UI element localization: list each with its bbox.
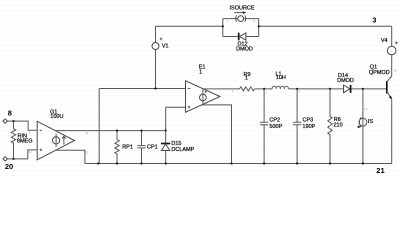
node junction node11 end [165, 130, 167, 132]
wire bottom rail (node 21) [85, 163, 392, 165]
svg-text:13: 13 [364, 107, 368, 111]
svg-text:DCLAMP: DCLAMP [171, 147, 194, 153]
svg-text:210: 210 [334, 123, 343, 129]
wire L1 to D14 [289, 88, 344, 90]
svg-text:21: 21 [376, 166, 384, 175]
svg-text:1uH: 1uH [276, 75, 286, 81]
wire V4 stem [391, 26, 393, 46]
capacitor CP1 [137, 131, 157, 164]
node junction loop right [258, 25, 260, 27]
node junction RIN top [12, 120, 14, 122]
svg-text:CP1: CP1 [147, 145, 158, 151]
svg-text:3: 3 [372, 16, 376, 25]
svg-text:500P: 500P [269, 124, 282, 130]
wire E1 out lower to bottom rail [202, 105, 232, 164]
capacitor CP3 190P [293, 89, 316, 164]
resistor RIN 8MEG [11, 121, 32, 159]
node junction loop left [222, 25, 224, 27]
wire top rail left (node 3) [156, 25, 223, 27]
svg-text:20: 20 [28, 150, 32, 154]
svg-text:11: 11 [85, 131, 88, 135]
resistor RP1 [115, 131, 133, 164]
inductor L1 1uH [272, 71, 288, 89]
wire vertical drop node21 [98, 89, 100, 164]
svg-text:1: 1 [245, 76, 248, 82]
wire port20 to G1 plus input [7, 150, 37, 159]
svg-text:DMOD: DMOD [337, 78, 354, 84]
node junction IS top [362, 88, 364, 90]
svg-text:ISOURCE: ISOURCE [230, 5, 255, 11]
wire G1 out+ rail (node 11) [55, 130, 165, 132]
diode D12 DMOD [236, 33, 253, 53]
svg-text:8: 8 [8, 109, 12, 118]
wire V1 stem [155, 26, 157, 42]
node junction CP2 top [263, 88, 265, 90]
source V1 [152, 38, 169, 50]
wire G1 out- to bottom rail [56, 150, 85, 163]
svg-text:CP2: CP2 [269, 118, 280, 124]
svg-text:21: 21 [85, 150, 89, 154]
node junction CP3 bottom [296, 162, 298, 164]
node junction CP3 top [296, 88, 298, 90]
node junction CP2 bottom [263, 162, 265, 164]
wire E1 out upper to R9 [204, 88, 240, 90]
wire R9 to L1 [255, 88, 272, 90]
wire top rail right (node 3) [259, 25, 392, 27]
port 8 [3, 109, 12, 124]
wire port8 to G1 minus input [7, 121, 37, 130]
wire V4 to Q1 collector [391, 55, 393, 76]
diode D14 DMOD [337, 73, 354, 93]
node junction IS bottom [362, 162, 364, 164]
node junction V1 bottom [154, 87, 156, 89]
svg-text:1: 1 [199, 70, 202, 76]
op-amp E1 [186, 65, 221, 113]
node junction R6 bottom [329, 162, 331, 164]
resistor R9 1 [240, 72, 255, 91]
node junction E1 lower bottom [230, 162, 232, 164]
capacitor CP2 500P [260, 89, 283, 164]
current source ISOURCE [226, 5, 255, 23]
node junction RP1 top [116, 130, 118, 132]
svg-text:IS: IS [368, 119, 374, 125]
svg-text:V1: V1 [162, 44, 169, 50]
svg-text:20: 20 [5, 162, 13, 171]
transistor Q1 QPMOD [369, 65, 397, 100]
svg-text:QPMOD: QPMOD [369, 70, 390, 76]
port 20 [3, 157, 13, 172]
svg-text:CP3: CP3 [303, 118, 314, 124]
svg-text:190P: 190P [303, 124, 316, 130]
svg-text:DMOD: DMOD [236, 47, 253, 53]
source V4 [381, 38, 398, 55]
wire D14 to Q1 base [351, 88, 386, 90]
wire E1 plus riser [166, 107, 186, 130]
wire isource loop [223, 19, 259, 37]
node junction R6 top [329, 88, 331, 90]
svg-text:V4: V4 [381, 38, 388, 44]
wire node21 rail to E1 minus [99, 88, 185, 90]
node junction bottom x98.7 [97, 162, 99, 164]
node junction D15 bottom [165, 162, 167, 164]
current source IS [358, 89, 374, 164]
node junction CP1 bottom [140, 162, 142, 164]
svg-text:100U: 100U [50, 114, 63, 120]
svg-text:RP1: RP1 [122, 145, 133, 151]
svg-text:18: 18 [393, 68, 397, 72]
wire Q1 emitter to bottom rail [391, 99, 393, 163]
svg-text:8MEG: 8MEG [17, 138, 33, 144]
node junction RIN bottom [12, 158, 14, 160]
wire V1 to node21 rail [155, 50, 157, 89]
node junction RP1 bottom [116, 162, 118, 164]
transconductance amp G1 100U [28, 110, 89, 160]
resistor R6 210 [328, 89, 343, 164]
node junction CP1 top [140, 130, 142, 132]
diode D15 DCLAMP [161, 131, 195, 164]
